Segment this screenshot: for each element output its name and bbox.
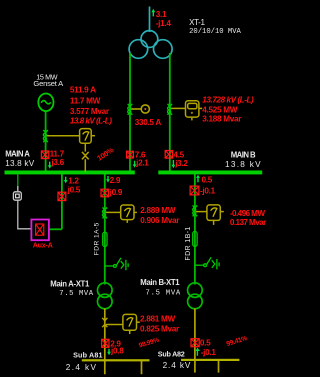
svg-text:3.188 Mvar: 3.188 Mvar [202,114,242,123]
svg-text:2.889 MW: 2.889 MW [140,206,175,215]
svg-text:0.5: 0.5 [200,339,211,348]
svg-text:1.2: 1.2 [68,176,79,185]
svg-text:0.906 Mvar: 0.906 Mvar [140,216,180,225]
svg-text:FDR 1B-1: FDR 1B-1 [185,226,192,260]
svg-text:330.5 A: 330.5 A [135,118,162,127]
svg-text:-j0.1: -j0.1 [200,186,216,195]
svg-text:20/10/10 MVA: 20/10/10 MVA [189,28,241,36]
svg-text:98.99%: 98.99% [138,337,160,350]
svg-text:511.9 A: 511.9 A [70,86,96,95]
svg-text:-j0.1: -j0.1 [201,348,217,357]
svg-text:MAIN A: MAIN A [5,150,30,159]
svg-text:13.8 kV (L-L): 13.8 kV (L-L) [70,117,112,126]
svg-text:j0.8: j0.8 [110,347,124,356]
svg-text:4.525 MW: 4.525 MW [202,105,237,114]
svg-text:0.5: 0.5 [202,176,213,185]
svg-text:-0.496 MW: -0.496 MW [230,209,266,218]
svg-text:11.7: 11.7 [50,149,65,158]
svg-text:Aux-A: Aux-A [33,240,53,249]
svg-text:13.8 kV: 13.8 kV [5,159,35,168]
svg-text:Genset A: Genset A [33,79,64,88]
svg-text:13.8 kV: 13.8 kV [225,160,262,169]
svg-text:j0.9: j0.9 [109,188,123,197]
svg-text:j3.2: j3.2 [174,159,188,168]
svg-text:2.881 MW: 2.881 MW [140,314,175,323]
svg-text:7.5 MVA: 7.5 MVA [146,290,181,298]
svg-text:Sub A81: Sub A81 [73,351,103,360]
svg-text:0.137 Mvar: 0.137 Mvar [230,218,267,227]
svg-text:3.1: 3.1 [156,10,167,19]
svg-text:2.4 kV: 2.4 kV [163,361,192,370]
svg-text:-j1.4: -j1.4 [156,19,172,28]
svg-text:7.5 MVA: 7.5 MVA [59,290,93,298]
svg-text:11.7 MW: 11.7 MW [70,96,101,105]
svg-text:99.41%: 99.41% [226,335,249,348]
svg-text:2.4 kV: 2.4 kV [66,363,98,372]
svg-text:Main B-XT1: Main B-XT1 [140,278,180,287]
svg-text:j2.1: j2.1 [135,159,149,168]
svg-text:FDR 1A-5: FDR 1A-5 [94,222,101,255]
svg-text:100%: 100% [95,145,115,163]
svg-text:Sub A82: Sub A82 [158,349,185,358]
svg-text:j0.5: j0.5 [67,185,81,194]
svg-text:j3.6: j3.6 [50,158,64,167]
svg-text:0.825 Mvar: 0.825 Mvar [140,324,180,333]
svg-text:MAIN B: MAIN B [231,150,256,159]
svg-text:13.728 kV (L-L): 13.728 kV (L-L) [202,95,254,104]
svg-text:3.577 Mvar: 3.577 Mvar [70,107,110,116]
svg-text:Main A-XT1: Main A-XT1 [50,279,90,288]
svg-text:XT-1: XT-1 [189,18,205,27]
svg-text:2.9: 2.9 [110,176,121,185]
